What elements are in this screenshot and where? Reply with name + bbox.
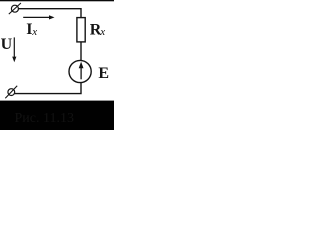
resistor Rx — [77, 18, 85, 42]
top border line — [0, 0, 114, 1]
background — [0, 0, 114, 130]
svg-text:x: x — [99, 26, 105, 38]
wire top horizontal + right vertical — [18, 9, 81, 18]
svg-text:U: U — [1, 36, 13, 53]
terminal (bottom-left, slashed circle) — [5, 86, 17, 98]
caption bar — [0, 101, 114, 130]
terminal (top-left, slashed circle) — [9, 3, 21, 14]
wire source to bottom — [15, 83, 81, 94]
current source E circle — [69, 60, 91, 82]
arrow inside source — [79, 62, 84, 80]
voltage arrow (down) — [12, 37, 16, 62]
svg-text:Рис. 11.13: Рис. 11.13 — [15, 111, 74, 126]
current arrow Ix — [23, 15, 54, 19]
svg-text:x: x — [31, 26, 37, 38]
svg-text:E: E — [98, 65, 109, 82]
wire resistor to source — [80, 42, 82, 61]
